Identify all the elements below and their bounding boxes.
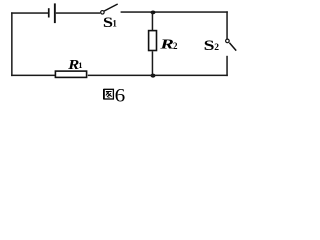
svg-text:S: S — [204, 38, 215, 54]
wire: right vertical lower (below S2 to bottom corner) — [226, 56, 228, 76]
wire: bottom, R1 to right corner — [88, 75, 228, 77]
node: junction dot bottom of R2 branch — [151, 74, 156, 78]
svg-text:1: 1 — [78, 60, 82, 70]
switch S1 — [101, 4, 118, 14]
wire: R2 branch upper — [152, 12, 154, 31]
wire: left vertical side — [11, 12, 13, 76]
svg-text:2: 2 — [173, 41, 178, 51]
svg-text:6: 6 — [115, 86, 126, 103]
wire: R2 branch lower — [152, 51, 154, 76]
svg-text:2: 2 — [214, 43, 219, 53]
wire: right vertical upper (top corner down to S2) — [226, 11, 228, 39]
wire: top, left segment to battery — [11, 12, 48, 14]
resistor R2 — [149, 31, 157, 51]
svg-text:1: 1 — [112, 18, 117, 28]
switch S2 — [226, 39, 237, 50]
wire: top, battery to switch S1 — [56, 12, 100, 14]
svg-text:R: R — [159, 38, 174, 53]
caption 图 (drawn glyph) — [104, 89, 114, 99]
wire: top, switch S1 to right corner — [121, 11, 228, 13]
resistor R1 — [55, 71, 86, 77]
node: junction dot top of R2 branch — [151, 10, 156, 14]
battery — [48, 3, 56, 23]
wire: bottom, left segment to R1 — [11, 75, 55, 77]
